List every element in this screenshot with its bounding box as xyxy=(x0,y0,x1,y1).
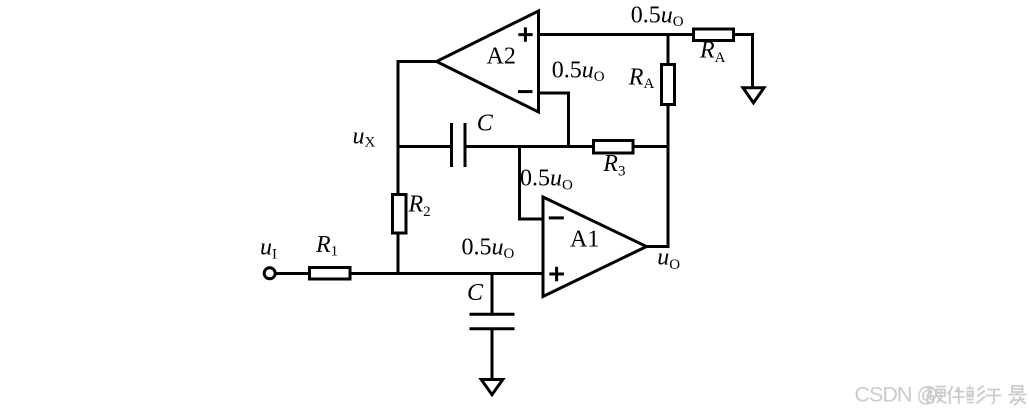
watermark CSDN xyxy=(855,383,938,407)
wire node down to resistor RA vertical xyxy=(667,33,670,65)
resistor R3 xyxy=(594,141,634,180)
wire bottom rail down to capacitor C (grounded) xyxy=(491,274,494,315)
wire A2 +input to node 0.5uO top xyxy=(539,33,669,36)
wire A1 output to node uO xyxy=(647,245,670,248)
ground (right) xyxy=(743,88,764,103)
wire R1 to A1 +input (bottom rail) xyxy=(350,272,543,275)
wire capacitor C to resistor R3 xyxy=(466,145,594,148)
wire R3 to right vertical rail xyxy=(633,145,668,148)
capacitor C (grounded, bottom) xyxy=(467,280,515,329)
watermark chinese glyphs xyxy=(927,386,1027,406)
op-amp A2 xyxy=(437,11,539,112)
input terminal uI xyxy=(260,235,277,279)
wire A2 -input down to node uX rail xyxy=(539,92,569,149)
resistor R1 xyxy=(310,232,351,279)
resistor R2 xyxy=(393,192,431,233)
wire node uX to capacitor C xyxy=(398,145,451,148)
svg-text:C: C xyxy=(477,111,494,137)
svg-text:A2: A2 xyxy=(487,43,516,69)
op-amp A1 xyxy=(543,197,647,297)
ground (bottom) xyxy=(481,380,503,395)
wire node to resistor RA horizontal xyxy=(668,33,694,36)
resistor RA (horizontal) xyxy=(694,29,734,66)
wire RA to ground corner xyxy=(734,33,753,88)
wire capacitor to ground (bottom) xyxy=(491,329,494,381)
wire node uX down through resistor R2 xyxy=(397,235,400,276)
svg-text:CSDN @: CSDN @ xyxy=(855,383,938,407)
capacitor C (feedback, horizontal) xyxy=(452,111,494,168)
wire junction down to A1 -input xyxy=(520,145,544,219)
resistor RA (vertical) xyxy=(628,65,675,105)
svg-text:C: C xyxy=(467,280,484,306)
wire terminal to resistor R1 xyxy=(275,272,309,275)
wire RA vertical down to A1 output node xyxy=(667,105,670,248)
wire A2 output to node uX xyxy=(398,60,437,195)
svg-text:A1: A1 xyxy=(570,226,599,252)
